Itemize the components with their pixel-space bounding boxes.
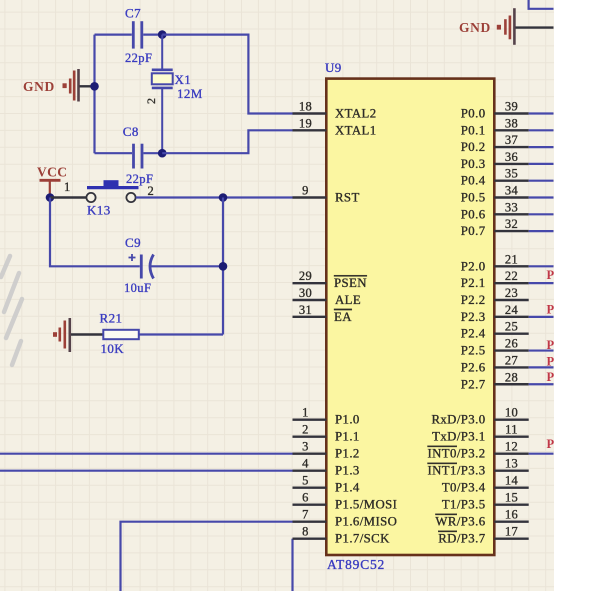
svg-text:16: 16 bbox=[505, 508, 518, 522]
wire RST net bbox=[136, 196, 293, 198]
svg-text:39: 39 bbox=[505, 100, 518, 114]
svg-text:P0.5: P0.5 bbox=[461, 191, 486, 205]
svg-text:C7: C7 bbox=[125, 6, 141, 21]
pin 19 XTAL1 bbox=[293, 116, 377, 137]
wire bbox=[529, 163, 554, 165]
svg-text:P0.6: P0.6 bbox=[461, 207, 486, 221]
svg-text:P1.4: P1.4 bbox=[335, 481, 360, 495]
pin 11 TxD/P3.1 bbox=[432, 423, 529, 444]
value 12M bbox=[177, 86, 203, 101]
pin 26 P2.5 bbox=[461, 337, 529, 358]
pin 36 P0.3 bbox=[461, 150, 529, 171]
svg-text:17: 17 bbox=[505, 525, 518, 539]
svg-text:1: 1 bbox=[302, 406, 309, 420]
wire bbox=[529, 129, 554, 131]
wire bbox=[162, 35, 292, 114]
svg-text:26: 26 bbox=[505, 337, 518, 351]
svg-text:P2.3: P2.3 bbox=[461, 310, 486, 324]
capacitor C7 bbox=[95, 21, 163, 48]
pin 13 INT1/P3.3 bbox=[428, 457, 529, 478]
svg-text:P2.0: P2.0 bbox=[461, 259, 486, 273]
crystal X1 bbox=[152, 35, 173, 154]
svg-text:INT1/P3.3: INT1/P3.3 bbox=[428, 464, 486, 478]
wire bbox=[529, 453, 554, 455]
wire bbox=[529, 112, 554, 114]
svg-text:P: P bbox=[547, 268, 555, 282]
wire bbox=[529, 146, 554, 148]
svg-text:P2.4: P2.4 bbox=[461, 327, 486, 341]
wire bbox=[162, 130, 292, 153]
svg-text:P: P bbox=[547, 370, 555, 384]
svg-text:P0.0: P0.0 bbox=[461, 107, 486, 121]
node net label (cut) bbox=[547, 303, 555, 317]
ground bbox=[459, 8, 554, 45]
svg-text:24: 24 bbox=[505, 303, 519, 317]
capacitor C9 bbox=[129, 254, 224, 279]
wire bbox=[529, 0, 554, 9]
svg-text:29: 29 bbox=[299, 269, 312, 283]
label C9 bbox=[125, 235, 141, 250]
svg-text:22: 22 bbox=[505, 269, 518, 283]
svg-text:P2.1: P2.1 bbox=[461, 276, 486, 290]
svg-text:P2.7: P2.7 bbox=[461, 377, 486, 391]
pin 39 P0.0 bbox=[461, 100, 529, 121]
svg-text:6: 6 bbox=[302, 491, 309, 505]
pin 17 RD/P3.7 bbox=[438, 525, 528, 546]
pin 35 P0.4 bbox=[461, 167, 529, 188]
node XTAL1 junction bbox=[158, 149, 167, 158]
power VCC bbox=[37, 165, 67, 198]
svg-text:P1.3: P1.3 bbox=[335, 464, 360, 478]
svg-text:T1/P3.5: T1/P3.5 bbox=[442, 498, 486, 512]
value 22pF bbox=[126, 172, 153, 186]
svg-text:P1.5/MOSI: P1.5/MOSI bbox=[335, 498, 397, 512]
node RST junction bbox=[219, 193, 228, 202]
svg-text:RD/P3.7: RD/P3.7 bbox=[438, 532, 485, 546]
pin 12 INT0/P3.2 bbox=[428, 440, 529, 461]
label R21 bbox=[100, 311, 123, 326]
svg-text:P0.7: P0.7 bbox=[461, 224, 486, 238]
pin 5 P1.4 bbox=[293, 474, 360, 495]
svg-text:32: 32 bbox=[505, 217, 518, 231]
svg-text:P0.2: P0.2 bbox=[461, 140, 486, 154]
crystal pin 2 label bbox=[144, 98, 158, 104]
svg-text:38: 38 bbox=[505, 116, 518, 130]
svg-text:P1.7/SCK: P1.7/SCK bbox=[335, 532, 390, 546]
svg-text:27: 27 bbox=[505, 353, 518, 367]
pin 16 WR/P3.6 bbox=[435, 508, 528, 529]
node VCC junction bbox=[46, 193, 55, 202]
wire bbox=[529, 383, 554, 385]
svg-text:8: 8 bbox=[302, 525, 309, 539]
pin 28 P2.7 bbox=[461, 370, 529, 391]
svg-text:10K: 10K bbox=[101, 341, 125, 356]
wire P1.2 net bbox=[0, 453, 293, 455]
pin 31 EA bbox=[293, 303, 353, 324]
ground bbox=[53, 318, 70, 352]
svg-text:P1.2: P1.2 bbox=[335, 447, 360, 461]
wire bbox=[50, 196, 86, 198]
wire bbox=[529, 316, 554, 318]
svg-text:TxD/P3.1: TxD/P3.1 bbox=[432, 430, 485, 444]
wire P1.6 net bbox=[121, 522, 293, 591]
svg-text:12: 12 bbox=[505, 440, 518, 454]
svg-text:2: 2 bbox=[144, 98, 158, 104]
svg-text:25: 25 bbox=[505, 320, 518, 334]
pin 22 P2.1 bbox=[461, 269, 529, 290]
pin 18 XTAL2 bbox=[293, 100, 377, 121]
resistor R21 bbox=[71, 330, 223, 339]
svg-text:U9: U9 bbox=[325, 60, 342, 75]
wire bbox=[529, 230, 554, 232]
pin 32 P0.7 bbox=[461, 217, 529, 238]
svg-text:K13: K13 bbox=[87, 203, 111, 218]
button pin 2 label bbox=[148, 184, 155, 198]
button pin 1 label bbox=[64, 180, 71, 194]
svg-text:35: 35 bbox=[505, 167, 518, 181]
pin 25 P2.4 bbox=[461, 320, 529, 341]
svg-text:RST: RST bbox=[335, 191, 360, 205]
pin 21 P2.0 bbox=[461, 252, 529, 273]
svg-text:WR/P3.6: WR/P3.6 bbox=[435, 515, 485, 529]
svg-text:AT89C52: AT89C52 bbox=[327, 557, 385, 572]
svg-text:P0.1: P0.1 bbox=[461, 123, 486, 137]
label C8 bbox=[123, 124, 139, 139]
wire bbox=[529, 366, 554, 368]
wire bbox=[529, 282, 554, 284]
svg-text:T0/P3.4: T0/P3.4 bbox=[442, 481, 486, 495]
svg-text:28: 28 bbox=[505, 370, 518, 384]
svg-text:7: 7 bbox=[302, 508, 309, 522]
node net label (cut) bbox=[547, 268, 555, 282]
svg-text:INT0/P3.2: INT0/P3.2 bbox=[428, 447, 486, 461]
svg-text:18: 18 bbox=[299, 100, 312, 114]
svg-text:31: 31 bbox=[299, 303, 312, 317]
pin 34 P0.5 bbox=[461, 184, 529, 205]
svg-text:14: 14 bbox=[505, 474, 519, 488]
svg-text:R21: R21 bbox=[100, 311, 123, 326]
svg-text:RxD/P3.0: RxD/P3.0 bbox=[431, 413, 485, 427]
ground bbox=[23, 69, 92, 102]
svg-text:P1.6/MISO: P1.6/MISO bbox=[335, 515, 397, 529]
svg-text:19: 19 bbox=[299, 116, 312, 130]
pin 10 RxD/P3.0 bbox=[431, 406, 528, 427]
IC U9 body bbox=[326, 79, 494, 555]
svg-text:GND: GND bbox=[459, 20, 491, 35]
label AT89C52 bbox=[327, 557, 385, 572]
node net label (cut) bbox=[547, 338, 555, 352]
node net label (cut) bbox=[547, 370, 555, 384]
pin 1 P1.0 bbox=[293, 406, 360, 427]
svg-text:30: 30 bbox=[299, 286, 312, 300]
svg-text:ALE: ALE bbox=[335, 293, 361, 307]
pin 15 T1/P3.5 bbox=[442, 491, 529, 512]
svg-text:21: 21 bbox=[505, 252, 518, 266]
pin 3 P1.2 bbox=[293, 440, 360, 461]
svg-text:10: 10 bbox=[505, 406, 518, 420]
pin 38 P0.1 bbox=[461, 116, 529, 137]
pin 33 P0.6 bbox=[461, 200, 529, 221]
wire bbox=[529, 265, 554, 267]
node net label (cut) bbox=[547, 437, 555, 451]
svg-text:P0.3: P0.3 bbox=[461, 157, 486, 171]
wire bbox=[50, 198, 140, 267]
pin 37 P0.2 bbox=[461, 133, 529, 154]
label U9 bbox=[325, 60, 342, 75]
wire bbox=[529, 213, 554, 215]
svg-text:XTAL2: XTAL2 bbox=[335, 107, 377, 121]
svg-text:9: 9 bbox=[302, 184, 309, 198]
svg-text:P1.1: P1.1 bbox=[335, 430, 360, 444]
capacitor C8 bbox=[95, 144, 163, 169]
svg-text:X1: X1 bbox=[175, 72, 192, 87]
svg-text:P: P bbox=[547, 303, 555, 317]
value 22pF bbox=[125, 51, 152, 65]
pin 8 P1.7/SCK bbox=[293, 525, 391, 546]
svg-text:23: 23 bbox=[505, 286, 518, 300]
svg-text:P: P bbox=[547, 437, 555, 451]
svg-text:1: 1 bbox=[64, 180, 71, 194]
svg-text:33: 33 bbox=[505, 200, 518, 214]
label C7 bbox=[125, 6, 141, 21]
wire bbox=[529, 349, 554, 351]
svg-text:10uF: 10uF bbox=[124, 281, 151, 295]
value 10K bbox=[101, 341, 125, 356]
svg-text:2: 2 bbox=[148, 184, 155, 198]
svg-text:4: 4 bbox=[302, 457, 309, 471]
label K13 bbox=[87, 203, 111, 218]
pin 24 P2.3 bbox=[461, 303, 529, 324]
node GND junction bbox=[90, 82, 99, 91]
pin 23 P2.2 bbox=[461, 286, 529, 307]
wire P1.3 net bbox=[0, 470, 293, 472]
pin 9 RST bbox=[293, 184, 360, 205]
pushbutton K13 bbox=[86, 180, 138, 202]
svg-text:P: P bbox=[547, 355, 555, 369]
svg-text:P2.2: P2.2 bbox=[461, 293, 486, 307]
svg-text:34: 34 bbox=[505, 184, 519, 198]
node XTAL2 junction bbox=[158, 30, 167, 39]
svg-text:XTAL1: XTAL1 bbox=[335, 123, 377, 137]
svg-text:12M: 12M bbox=[177, 86, 203, 101]
wire bbox=[93, 35, 95, 154]
svg-text:P0.4: P0.4 bbox=[461, 174, 486, 188]
pin 14 T0/P3.4 bbox=[442, 474, 529, 495]
svg-text:P: P bbox=[547, 338, 555, 352]
wire bbox=[529, 196, 554, 198]
pin 30 ALE bbox=[293, 286, 362, 307]
wire P1.7 net bbox=[291, 539, 293, 591]
svg-text:PSEN: PSEN bbox=[334, 276, 367, 290]
wire bbox=[222, 198, 224, 335]
node net label (cut) bbox=[547, 355, 555, 369]
svg-text:EA: EA bbox=[334, 310, 352, 324]
svg-text:P1.0: P1.0 bbox=[335, 413, 360, 427]
svg-text:37: 37 bbox=[505, 133, 518, 147]
svg-text:3: 3 bbox=[302, 440, 309, 454]
label X1 bbox=[175, 72, 192, 87]
svg-text:P2.6: P2.6 bbox=[461, 360, 486, 374]
pin 4 P1.3 bbox=[293, 457, 360, 478]
svg-text:13: 13 bbox=[505, 457, 518, 471]
pin 27 P2.6 bbox=[461, 353, 529, 374]
svg-text:C9: C9 bbox=[125, 235, 141, 250]
pin 7 P1.6/MISO bbox=[293, 508, 398, 529]
svg-text:VCC: VCC bbox=[37, 165, 67, 180]
svg-text:36: 36 bbox=[505, 150, 518, 164]
svg-text:22pF: 22pF bbox=[125, 51, 152, 65]
node C9 junction bbox=[219, 262, 228, 271]
svg-text:GND: GND bbox=[23, 79, 55, 94]
svg-text:P2.5: P2.5 bbox=[461, 344, 486, 358]
pin 29 PSEN bbox=[293, 269, 367, 290]
pin 2 P1.1 bbox=[293, 423, 360, 444]
svg-text:15: 15 bbox=[505, 491, 518, 505]
pin 6 P1.5/MOSI bbox=[293, 491, 398, 512]
svg-text:5: 5 bbox=[302, 474, 309, 488]
svg-text:C8: C8 bbox=[123, 124, 139, 139]
value 10uF bbox=[124, 281, 151, 295]
svg-text:11: 11 bbox=[505, 423, 518, 437]
wire bbox=[529, 180, 554, 182]
svg-text:2: 2 bbox=[302, 423, 309, 437]
